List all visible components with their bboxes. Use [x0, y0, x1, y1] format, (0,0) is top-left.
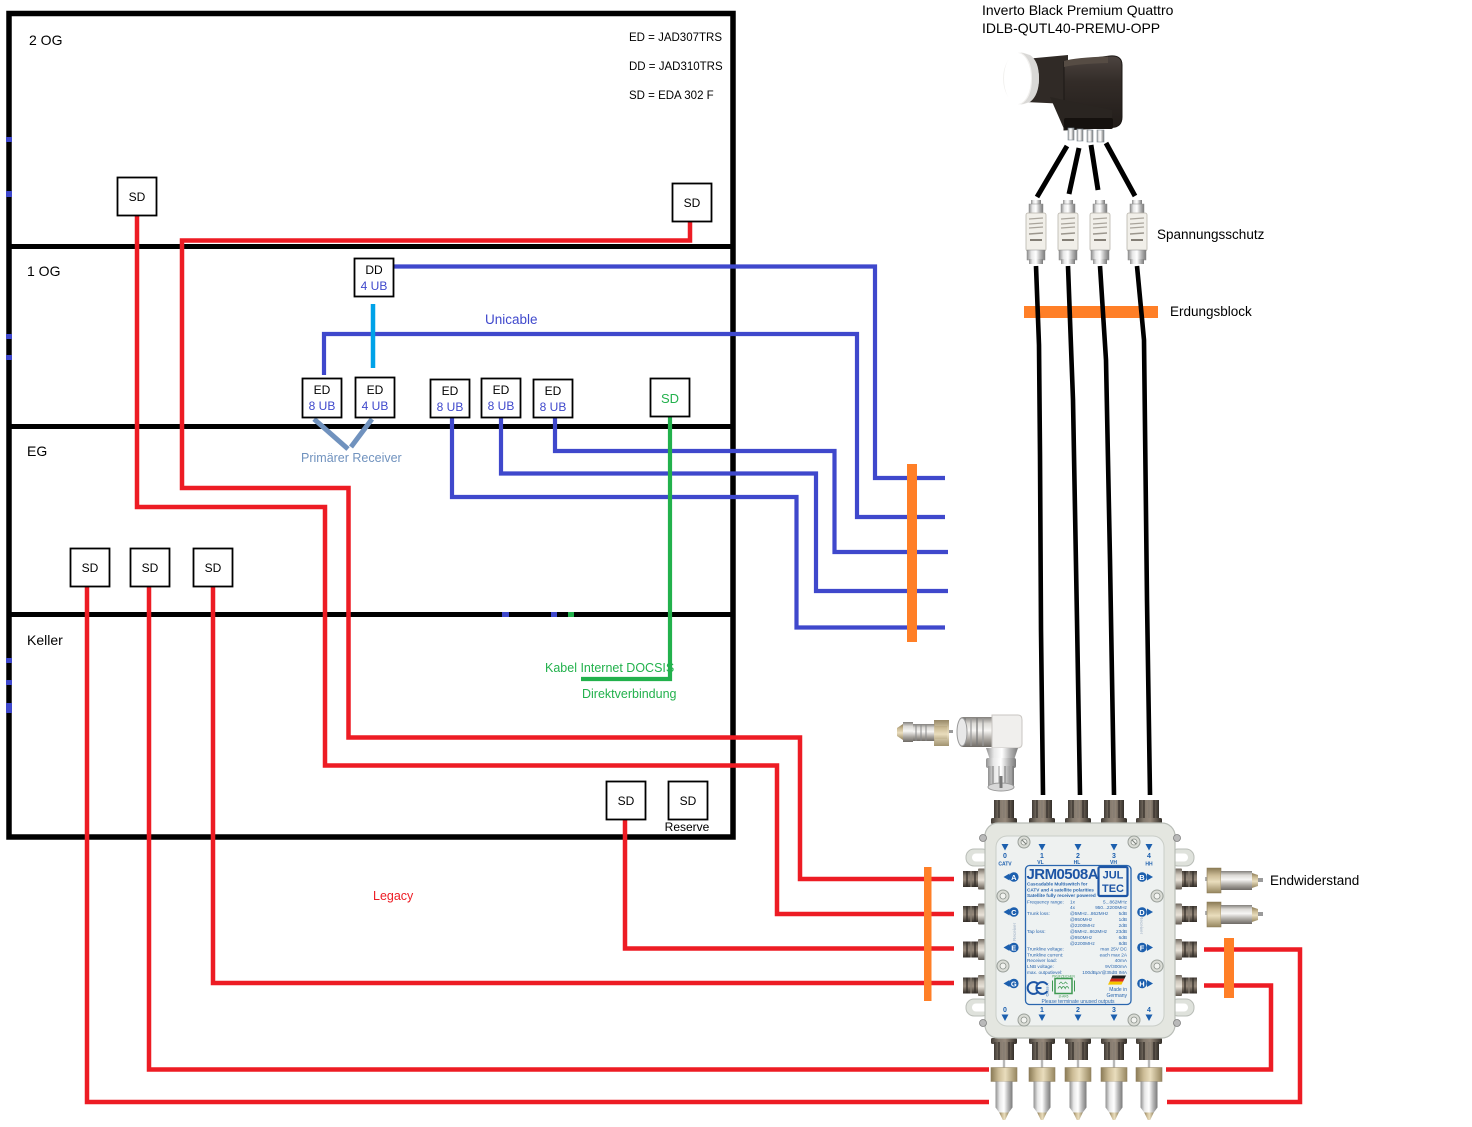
house outline	[9, 14, 733, 838]
svg-text:max 25V DC: max 25V DC	[1100, 947, 1127, 952]
svg-text:Inverto Black Premium Quattro: Inverto Black Premium Quattro	[982, 2, 1174, 18]
legend SD	[629, 90, 714, 102]
svg-text:@2200MHz: @2200MHz	[1070, 923, 1095, 928]
multiswitch trunk output D right connector	[1175, 904, 1197, 925]
svg-text:Keller: Keller	[27, 632, 63, 648]
svg-text:23dB: 23dB	[1116, 929, 1127, 934]
multiswitch trunk input C left connector	[963, 904, 985, 925]
svg-text:@950MHz: @950MHz	[1070, 917, 1093, 922]
svg-text:Unicable: Unicable	[485, 312, 538, 327]
svg-text:8 UB: 8 UB	[488, 399, 515, 413]
wire cyan: DD to ED 4UB	[371, 304, 376, 368]
distributor ED 8UB no.3	[431, 380, 470, 418]
svg-text:Tap loss:: Tap loss:	[1027, 929, 1046, 934]
distributor DD 4UB	[355, 259, 394, 297]
svg-text:Frequency range:: Frequency range:	[1027, 899, 1064, 904]
floor label 1 OG	[27, 263, 60, 279]
svg-text:G: G	[1011, 980, 1017, 989]
multiswitch top port labels	[998, 844, 1153, 868]
pointer strokes Primaerer Receiver	[314, 419, 372, 449]
label LNB title	[982, 2, 1174, 36]
label Legacy	[373, 889, 414, 903]
multiswitch terminate note	[1041, 999, 1115, 1005]
svg-text:SD = EDA 302 F: SD = EDA 302 F	[629, 90, 714, 102]
svg-text:ED: ED	[314, 383, 331, 397]
cable LNB pin4 to protector4	[1106, 143, 1135, 196]
outlet SD 2OG right	[673, 184, 712, 222]
svg-text:1x: 1x	[1070, 899, 1076, 904]
svg-text:1 OG: 1 OG	[27, 263, 60, 279]
svg-text:ED: ED	[367, 383, 384, 397]
wire red: EG SD 1 toward terminated output (left segment)	[87, 586, 989, 1102]
wire green: 1OG SD cable internet line	[581, 417, 670, 679]
svg-text:Direktverbindung: Direktverbindung	[582, 687, 677, 701]
terminator cap on output 3	[1101, 1060, 1127, 1120]
terminator cap on output 0	[991, 1060, 1017, 1120]
surge protector 2	[1058, 200, 1078, 264]
multiswitch edge screws	[980, 835, 1181, 1027]
cable protector3 to switch input 3	[1100, 266, 1114, 795]
multiswitch output 2 bottom connector	[1065, 1038, 1091, 1060]
wire red: Keller SD to multiswitch input E	[625, 820, 954, 949]
svg-text:950...2200MHz: 950...2200MHz	[1095, 905, 1127, 910]
svg-text:8dB: 8dB	[1119, 941, 1127, 946]
svg-text:DD = JAD310TRS: DD = JAD310TRS	[629, 61, 723, 73]
svg-text:4 UB: 4 UB	[361, 279, 388, 293]
svg-text:SD: SD	[661, 391, 679, 406]
svg-text:Cascadable Multiswitch for: Cascadable Multiswitch for	[1027, 882, 1088, 887]
multiswitch spec text	[1027, 882, 1128, 975]
svg-text:JUL: JUL	[1103, 870, 1124, 882]
multiswitch German flag made in Germany	[1106, 976, 1127, 1000]
terminator cap on output 2	[1065, 1060, 1091, 1120]
svg-text:9V/300mA: 9V/300mA	[1105, 964, 1128, 969]
wire red: 2OG right SD to multiswitch input A	[182, 221, 954, 879]
svg-text:CATV and 4 satellite polaritie: CATV and 4 satellite polarities	[1027, 887, 1094, 892]
multiswitch input 4 top connector	[1136, 800, 1162, 824]
svg-text:E: E	[1011, 944, 1016, 953]
svg-text:SD: SD	[142, 561, 159, 575]
multiswitch bottom port labels	[1002, 1007, 1153, 1021]
svg-text:JRM0508A: JRM0508A	[1027, 866, 1099, 883]
floor label 2 OG	[29, 32, 62, 48]
multiswitch side port labels A C E G	[1004, 872, 1019, 988]
outlet SD Keller Reserve	[665, 782, 710, 835]
outlet SD EG 3	[194, 549, 233, 587]
multiswitch JRM0508A body	[985, 823, 1175, 1038]
svg-text:EG: EG	[27, 443, 47, 459]
svg-text:each max 2A: each max 2A	[1100, 952, 1128, 957]
wire red: 2OG left SD to multiswitch input C	[137, 215, 954, 914]
border mark dashes (blue remnants on left wall)	[6, 137, 12, 713]
terminator cap on output 1	[1029, 1060, 1055, 1120]
multiswitch trunk input G left connector	[963, 975, 985, 996]
wire red: loop from output H down to bottom row	[1166, 986, 1271, 1070]
multiswitch label panel	[1026, 866, 1132, 1005]
orange cable bundle bar (left of multiswitch)	[924, 867, 932, 1001]
multiswitch input 2 top connector	[1065, 800, 1091, 824]
F-plug adapter photo left part	[897, 720, 953, 746]
multiswitch output 3 bottom connector	[1101, 1038, 1127, 1060]
multiswitch input 1 top connector	[1029, 800, 1055, 824]
floor label EG	[27, 443, 47, 459]
cable protector4 to switch input 4	[1137, 266, 1150, 795]
multiswitch trunk input E left connector	[963, 939, 985, 960]
svg-text:ED: ED	[442, 384, 459, 398]
wire blue: Unicable line	[324, 334, 945, 517]
label Kabel Internet DOCSIS	[545, 661, 674, 675]
svg-text:SD: SD	[618, 794, 635, 808]
svg-text:Trunkline current:: Trunkline current:	[1027, 952, 1063, 957]
wire blue: ED 8UB no.4 line	[501, 418, 948, 591]
wire red: EG SD 2 toward terminated output (left segment)	[149, 586, 989, 1070]
F-plug adapter photo right part (angle adapter)	[957, 715, 1022, 791]
floor divider Keller	[11, 612, 731, 617]
multiswitch side port labels B D F H	[1137, 872, 1153, 988]
distributor ED 8UB no.5	[534, 380, 573, 418]
multiswitch input 0 top connector	[991, 800, 1017, 824]
svg-text:2: 2	[1076, 853, 1080, 860]
svg-text:Endwiderstand: Endwiderstand	[1270, 873, 1359, 888]
label Primaerer Receiver	[301, 451, 402, 465]
label Direktverbindung	[582, 687, 677, 701]
svg-text:Erdungsblock: Erdungsblock	[1170, 304, 1252, 319]
svg-text:@2200MHz: @2200MHz	[1070, 941, 1095, 946]
svg-text:ED = JAD307TRS: ED = JAD307TRS	[629, 32, 722, 44]
cable LNB pin2 to protector2	[1069, 148, 1079, 194]
svg-text:1: 1	[1040, 1007, 1044, 1014]
multiswitch receiver side texts	[1012, 916, 1144, 941]
distributor ED 4UB no.2	[356, 378, 395, 418]
outlet SD Keller	[607, 782, 646, 820]
multiswitch trunk output B right connector	[1175, 869, 1197, 890]
svg-text:Reserve: Reserve	[665, 820, 710, 834]
svg-text:6dB: 6dB	[1119, 935, 1127, 940]
wire blue: ED 8UB no.3 line	[452, 418, 945, 628]
svg-text:Receiver: Receiver	[1012, 922, 1017, 941]
svg-text:SD: SD	[684, 196, 701, 210]
cable protector1 to switch input 1	[1036, 266, 1043, 795]
svg-text:40mA: 40mA	[1115, 958, 1128, 963]
svg-text:CATV: CATV	[998, 862, 1012, 868]
svg-text:3: 3	[1112, 853, 1116, 860]
svg-text:PRÜFZEICHEN: PRÜFZEICHEN	[1052, 975, 1075, 979]
svg-text:Receiver load:: Receiver load:	[1027, 958, 1057, 963]
svg-text:C: C	[1011, 908, 1017, 917]
surge protector 4	[1127, 200, 1147, 264]
Endwiderstand terminator 1	[1205, 868, 1263, 893]
svg-text:4: 4	[1147, 1007, 1151, 1014]
svg-text:ED: ED	[493, 383, 510, 397]
svg-text:IDLB-QUTL40-PREMU-OPP: IDLB-QUTL40-PREMU-OPP	[982, 20, 1160, 36]
multiswitch green eco seal	[1052, 975, 1075, 999]
distributor ED 8UB no.1	[303, 379, 342, 418]
floor divider EG	[11, 424, 731, 429]
outlet SD EG 1	[71, 549, 110, 587]
outlet SD 1OG (cable internet)	[651, 379, 690, 417]
legend ED	[629, 32, 722, 44]
svg-text:2 OG: 2 OG	[29, 32, 62, 48]
outlet SD 2OG left	[118, 178, 157, 216]
floor label Keller	[27, 632, 63, 648]
svg-text:@5MHz...862MHz: @5MHz...862MHz	[1070, 911, 1109, 916]
multiswitch trunk output F right connector	[1175, 939, 1197, 960]
svg-text:1dB: 1dB	[1119, 917, 1127, 922]
multiswitch trunk output H right connector	[1175, 975, 1197, 996]
cable LNB pin3 to protector3	[1091, 145, 1098, 190]
svg-text:HH: HH	[1145, 862, 1153, 868]
svg-text:4: 4	[1147, 853, 1151, 860]
svg-text:0: 0	[1003, 1007, 1007, 1014]
svg-text:Please terminate unused output: Please terminate unused outputs	[1041, 999, 1115, 1005]
svg-text:100dBµV@35dB IMA: 100dBµV@35dB IMA	[1082, 970, 1128, 975]
svg-text:8 UB: 8 UB	[309, 399, 336, 413]
svg-text:Legacy: Legacy	[373, 889, 414, 903]
surge protector 1	[1026, 200, 1046, 264]
svg-text:8 UB: 8 UB	[437, 400, 464, 414]
svg-text:Kabel Internet DOCSIS: Kabel Internet DOCSIS	[545, 661, 674, 675]
wire red: EG SD 3 to multiswitch input G	[213, 586, 954, 983]
svg-text:SD: SD	[205, 561, 222, 575]
multiswitch JRM0508A mounting ears	[966, 849, 1194, 1016]
svg-text:LNB voltage:: LNB voltage:	[1027, 964, 1054, 969]
svg-text:TEC: TEC	[1102, 883, 1124, 895]
svg-text:SD: SD	[680, 794, 697, 808]
wire blue: DD distribution line	[394, 267, 945, 479]
svg-text:Satellite fully receiver power: Satellite fully receiver powered	[1027, 893, 1096, 898]
svg-text:@950MHz: @950MHz	[1070, 935, 1093, 940]
label Spannungsschutz	[1157, 227, 1265, 242]
svg-text:3: 3	[1112, 1007, 1116, 1014]
svg-text:Trunk loss:: Trunk loss:	[1027, 911, 1050, 916]
svg-text:2: 2	[1076, 1007, 1080, 1014]
cable LNB pin1 to protector1	[1037, 146, 1067, 197]
multiswitch CE mark	[1028, 982, 1050, 996]
multiswitch input 3 top connector	[1101, 800, 1127, 824]
Erdungsblock grounding block	[1024, 306, 1158, 318]
svg-text:F: F	[1140, 944, 1145, 953]
multiswitch output 1 bottom connector	[1029, 1038, 1055, 1060]
svg-text:Primärer Receiver: Primärer Receiver	[301, 451, 402, 465]
orange cable bundle bar (right of house)	[907, 464, 917, 642]
svg-text:Class A: Class A	[1045, 983, 1050, 997]
mark dashes on Keller divider	[502, 612, 574, 617]
LNB Inverto Black Premium Quattro	[1003, 53, 1122, 131]
svg-text:SD: SD	[82, 561, 99, 575]
svg-text:2dB: 2dB	[1119, 923, 1127, 928]
svg-text:Spannungsschutz: Spannungsschutz	[1157, 227, 1265, 242]
svg-text:4 UB: 4 UB	[362, 399, 389, 413]
surge protector 3	[1090, 200, 1110, 264]
multiswitch JULTEC logo box	[1099, 867, 1128, 896]
svg-text:Receiver: Receiver	[1139, 916, 1144, 935]
multiswitch output 0 bottom connector	[991, 1038, 1017, 1060]
terminator cap on output 4	[1136, 1060, 1162, 1120]
multiswitch output 4 bottom connector	[1136, 1038, 1162, 1060]
svg-text:@5MHz..862MHz: @5MHz..862MHz	[1070, 929, 1108, 934]
svg-text:8 UB: 8 UB	[540, 400, 567, 414]
cable protector2 to switch input 2	[1068, 266, 1080, 795]
outlet SD EG 2	[131, 549, 170, 587]
svg-text:H: H	[1139, 980, 1144, 989]
label Unicable	[485, 312, 538, 327]
svg-text:5dB: 5dB	[1119, 911, 1127, 916]
svg-text:B: B	[1139, 873, 1145, 882]
wire blue: ED 8UB no.5 line	[555, 418, 948, 552]
label Endwiderstand	[1270, 873, 1359, 888]
svg-text:1: 1	[1040, 853, 1044, 860]
multiswitch model text JRM0508A	[1027, 866, 1099, 883]
multiswitch trunk input A left connector	[963, 869, 985, 890]
svg-text:Trunkline voltage:: Trunkline voltage:	[1027, 947, 1064, 952]
floor divider 1 OG	[11, 244, 731, 249]
svg-text:ED: ED	[545, 384, 562, 398]
orange cable bundle bar (right of multiswitch)	[1224, 938, 1234, 998]
multiswitch corner screws	[997, 836, 1163, 1026]
svg-text:0: 0	[1003, 853, 1007, 860]
svg-text:4x: 4x	[1070, 905, 1076, 910]
Endwiderstand terminator 2	[1205, 902, 1263, 927]
svg-text:SD: SD	[129, 190, 146, 204]
distributor ED 8UB no.4	[482, 379, 521, 418]
svg-text:st-AR6: st-AR6	[1059, 995, 1069, 999]
wire red: loop from output F down to bottom row	[1167, 950, 1300, 1103]
svg-text:DD: DD	[365, 263, 383, 277]
svg-text:A: A	[1011, 873, 1017, 882]
LNB output pins	[1068, 128, 1104, 142]
label Erdungsblock	[1170, 304, 1252, 319]
svg-text:5...862MHz: 5...862MHz	[1103, 899, 1128, 904]
legend DD	[629, 61, 723, 73]
